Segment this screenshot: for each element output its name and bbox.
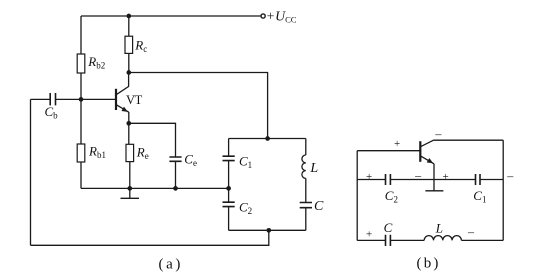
svg-text:(a): (a) [159, 257, 183, 273]
svg-text:C1: C1 [473, 188, 486, 205]
wire C bottom lead [305, 208, 307, 231]
capacitor C [300, 203, 312, 208]
svg-text:Cb: Cb [45, 104, 59, 121]
wire top supply rail [81, 15, 261, 17]
svg-text:Rb1: Rb1 [88, 144, 106, 161]
capacitor Cb [50, 93, 55, 105]
svg-text:C2: C2 [239, 200, 252, 217]
svg-text:–: – [414, 168, 422, 182]
wire feedback bottom [31, 230, 269, 245]
wire collector feed to tank [129, 73, 268, 139]
transistor VT (b) [420, 140, 503, 191]
capacitor C2 (b) [386, 174, 391, 185]
circuit b bottom wire left segment [357, 239, 385, 241]
svg-text:+: + [366, 171, 372, 183]
wire Rb2 branch top [80, 16, 82, 54]
node Re ground junction [127, 186, 132, 191]
inductor L (b) [424, 236, 461, 241]
svg-text:Rc: Rc [134, 37, 147, 54]
svg-text:+: + [443, 171, 449, 183]
wire Cb right lead to base node [56, 98, 82, 100]
wire Cb left lead [31, 98, 51, 100]
wire C2 top lead [228, 188, 230, 202]
svg-text:L: L [435, 221, 443, 236]
capacitor C (b) [386, 235, 391, 246]
wire left feedback column [30, 99, 32, 245]
capacitor C1 (b) [476, 174, 481, 185]
svg-text:C2: C2 [385, 188, 398, 205]
resistor Rc [125, 36, 133, 53]
ground (b) [425, 190, 443, 192]
node tank bottom junction [266, 228, 271, 233]
wire base node to transistor base [81, 98, 116, 100]
svg-text:C: C [314, 199, 324, 214]
svg-text:+: + [366, 229, 372, 241]
svg-text:–: – [506, 169, 514, 183]
wire L to C [305, 178, 307, 202]
wire Ce bottom lead [175, 161, 177, 188]
wire Rb1 top lead [80, 99, 82, 144]
wire Rb2 bottom to base node [80, 73, 82, 99]
node C1 C2 junction [226, 186, 231, 191]
svg-text:Re: Re [136, 144, 149, 161]
inductor L [302, 155, 306, 178]
node Ce ground junction [173, 186, 178, 191]
svg-text:+: + [394, 138, 400, 150]
node collector junction [126, 70, 131, 75]
svg-text:VT: VT [126, 93, 143, 107]
svg-text:C: C [384, 220, 393, 235]
svg-text:C1: C1 [239, 154, 252, 171]
circuit b bottom wire right segment [461, 239, 503, 241]
wire tank bottom [229, 229, 306, 231]
circuit b right edge [502, 140, 504, 240]
wire C1 bottom lead [228, 161, 230, 189]
svg-text:+UCC: +UCC [266, 8, 297, 24]
resistor Rb1 [77, 144, 85, 162]
wire Rb1 bottom lead [80, 162, 82, 188]
node emitter junction [126, 121, 131, 126]
capacitor C1 [223, 156, 235, 160]
wire L top lead [305, 139, 307, 156]
wire tank top [229, 138, 306, 140]
svg-text:–: – [434, 126, 442, 140]
wire emitter to Re [128, 123, 130, 144]
circuit b middle wire center segment [390, 179, 475, 181]
circuit b top left wire to base [357, 150, 420, 152]
svg-text:L: L [309, 161, 318, 176]
ground [121, 188, 140, 198]
node tank top junction [265, 136, 270, 141]
node base junction [79, 97, 84, 102]
wire emitter to Ce [129, 123, 176, 157]
wire Re bottom lead [129, 162, 131, 189]
node supply terminal [261, 14, 265, 18]
circuit b bottom wire mid segment [390, 239, 424, 241]
svg-text:Ce: Ce [184, 152, 197, 169]
svg-text:Rb2: Rb2 [87, 54, 105, 71]
wire C1 top lead [228, 139, 230, 157]
svg-text:(b): (b) [417, 256, 441, 272]
svg-text:–: – [467, 225, 475, 239]
capacitor Ce [169, 157, 181, 161]
resistor Re [126, 144, 134, 161]
capacitor C2 [223, 202, 235, 206]
wire C2 bottom lead [228, 207, 230, 231]
resistor Rb2 [77, 54, 85, 73]
circuit b outer loop left [356, 151, 358, 241]
wire Rc bottom to collector node [128, 53, 130, 72]
transistor VT [116, 73, 129, 124]
node top rail / Rc junction [126, 14, 131, 19]
wire Rc top [128, 16, 130, 36]
circuit b middle wire left segment [357, 179, 385, 181]
circuit b middle wire right segment [480, 179, 503, 181]
wire ground bus [81, 187, 229, 189]
